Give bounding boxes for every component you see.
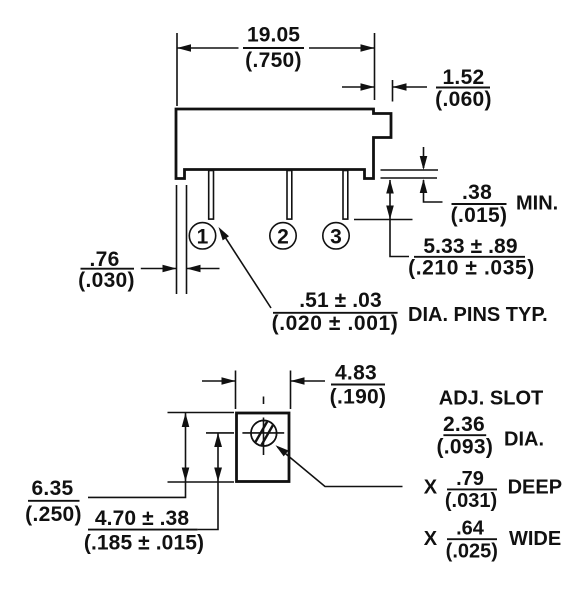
pin number 1 circle [189,223,215,249]
svg-text:2.36: 2.36 [443,413,485,436]
svg-text:3: 3 [330,225,342,248]
svg-text:(.060): (.060) [435,88,492,111]
horizontal centerline through screw [242,432,284,434]
fraction bar .79 [447,488,497,490]
adjustment screw circle [251,420,277,446]
4.70 bracket to label [198,482,218,530]
svg-text:1.52: 1.52 [442,66,484,89]
extension line .76 right [186,185,188,294]
.76 right arrow [187,268,220,270]
svg-text:(.210 ± .035): (.210 ± .035) [408,257,535,280]
extension line .76 left [176,185,178,294]
pin 1 [209,171,214,220]
svg-text:(.015): (.015) [451,204,508,227]
extension line body right edge (19.05/1.52 dims) [374,33,376,100]
6.35 bracket to label [88,482,186,497]
leader line adj slot [278,447,403,487]
svg-text:.76: .76 [89,248,119,271]
svg-text:DEEP: DEEP [508,477,562,499]
fraction bar 4.83 [331,384,385,386]
svg-text:(.031): (.031) [445,490,497,512]
4.83 left arrow [202,380,236,382]
pin number 3 circle [323,223,349,249]
fraction bar 4.70 [88,529,198,531]
svg-text:1: 1 [197,225,209,248]
svg-text:2: 2 [277,225,289,248]
svg-text:(.750): (.750) [245,49,302,72]
standoff lower line / seating plane (.38 dim) [381,177,438,179]
svg-text:(.093): (.093) [436,436,493,459]
dimension line 19.05 left segment with arrowhead [177,47,239,49]
pin 2 [287,171,292,220]
fraction bar 19.05 [243,47,304,49]
6.35 double arrow [185,413,187,482]
dimension line 1.52 left arrow [342,86,375,88]
svg-text:.51 ± .03: .51 ± .03 [299,289,381,312]
svg-text:DIA. PINS TYP.: DIA. PINS TYP. [408,304,548,326]
svg-text:19.05: 19.05 [247,24,300,47]
fraction bar 6.35 [28,500,80,502]
5.33 up arrow to seating plane [389,180,391,220]
svg-text:WIDE: WIDE [509,528,561,550]
fraction bar .51 [273,312,398,314]
dimension line 19.05 right segment with arrowhead [309,47,375,49]
vertical centerline through screw [263,418,265,456]
extension line 4.83 left [235,371,237,410]
fraction bar 5.33 [414,256,525,258]
svg-text:(.250): (.250) [25,503,82,526]
svg-text:(.185 ± .015): (.185 ± .015) [84,532,204,555]
pin 3 [343,171,348,220]
4.83 right arrow [291,380,326,382]
extension line 6.35 top [168,412,235,414]
trimmer body outline (side view) [176,109,391,179]
svg-text:6.35: 6.35 [31,477,73,500]
svg-text:4.70 ± .38: 4.70 ± .38 [95,507,189,530]
extension line 4.70 (screw centre) [206,432,234,434]
fraction bar 1.52 [436,87,490,89]
fraction bar 2.36 [443,434,486,436]
svg-text:MIN.: MIN. [516,193,558,215]
pin end reference line (5.33 dim) [354,219,413,221]
fraction bar .76 [81,268,135,270]
leader arrow pin diameter note [222,232,272,308]
end view body rectangle [237,413,290,482]
svg-text:X: X [424,477,438,499]
extension line screw right edge (1.52 dim) [392,80,394,102]
svg-text:.79: .79 [456,468,484,490]
extension line body left edge (19.05 dim) [176,33,178,106]
standoff upper line (.38 dim) [381,169,439,171]
svg-text:(.030): (.030) [78,269,135,292]
extension line 4.83 right [290,371,292,410]
down arrow to upper line [423,147,425,168]
svg-text:5.33 ± .89: 5.33 ± .89 [423,235,517,258]
re-draw screw circle above slot [251,420,277,446]
svg-text:ADJ. SLOT: ADJ. SLOT [439,388,543,410]
svg-text:(.190): (.190) [330,386,387,409]
4.70 double arrow [217,433,219,482]
vertical centerline stub above body [263,397,265,405]
svg-text:.64: .64 [456,518,485,540]
.76 left arrow [141,268,177,270]
dimension line 1.52 right arrow [393,86,428,88]
svg-text:X: X [424,528,438,550]
svg-text:.38: .38 [462,181,492,204]
fraction bar .64 [447,538,497,540]
up arrow to lower line with bend to label [424,180,443,202]
svg-text:DIA.: DIA. [504,429,544,451]
svg-text:(.025): (.025) [446,541,498,563]
svg-text:4.83: 4.83 [335,362,377,385]
fraction bar .38 [452,203,507,205]
svg-text:(.020 ± .001): (.020 ± .001) [272,312,399,335]
extension line 6.35 bottom [168,481,235,483]
screw slot line 2 [259,419,276,449]
5.33 down arrow to pin end line with bend to label [390,220,409,257]
pin number 2 circle [270,223,296,249]
